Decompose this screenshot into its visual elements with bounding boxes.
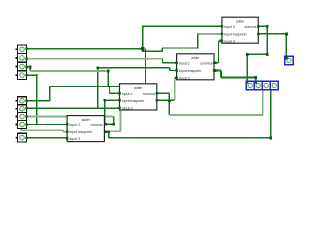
wire net N18 U4 trasporto carry to blue output cell4: [104, 90, 270, 138]
wire net N15 U1 somma to blue output cell1: [247, 26, 267, 81]
svg-text:input 3: input 3: [122, 105, 132, 110]
wire net N11 bus to U3 input2: [110, 87, 120, 94]
wire net N2 stack P2 to U2 input2: [26, 58, 162, 60]
svg-text:input 3: input 3: [70, 136, 80, 141]
svg-text:input trasporto: input trasporto: [122, 98, 144, 103]
svg-text:input 2: input 2: [122, 91, 132, 96]
wire net N16 U1 trasporto to single blue output: [258, 34, 286, 57]
svg-text:adder: adder: [191, 56, 200, 60]
svg-text:input trasporto: input trasporto: [70, 129, 92, 134]
wire net N14 U2 trasporto to blue output cell2: [214, 70, 256, 81]
svg-text:input 3: input 3: [224, 39, 234, 44]
wire vertical drop from junction J1: [145, 49, 147, 87]
wire net N12 U3 somma to blue output cell3: [157, 93, 170, 115]
wire net N7 stack2 cell3 to U4 somma output: [26, 115, 113, 117]
svg-text:input 2: input 2: [70, 122, 80, 127]
svg-text:somma: somma: [143, 91, 156, 96]
adder block U2: [175, 54, 215, 81]
svg-text:input 2: input 2: [179, 60, 189, 65]
wire net N6 stack2 cell2 to U3 input1: [26, 107, 119, 109]
wire branch down at x97.7: [97, 87, 99, 109]
wire branch up at x97.7 to U2 input trasporto: [98, 68, 177, 87]
wire net N4 stack P4 to stack2 cell4 and U4 input2: [26, 74, 67, 125]
wire hug along U3 left edge: [109, 87, 121, 132]
input cell S3 (single toggle): [16, 133, 28, 142]
wire net N10 U3 trasporto output to U2 input1: [157, 99, 175, 101]
input stack S2 (4 toggle cells): [16, 97, 27, 129]
wire horizontal bus y86.5: [50, 86, 146, 88]
svg-text:input 2: input 2: [224, 24, 234, 29]
svg-text:adder: adder: [82, 118, 91, 122]
wire net N1 main run from input stack P1: [21, 26, 286, 138]
wire branch to U1 input2: [142, 26, 222, 49]
input stack S1 (4 toggle cells): [16, 45, 27, 79]
blue output row (4 cells): [246, 81, 278, 90]
wire net N9 U4 somma edge riser to U3 input trasporto: [103, 100, 120, 125]
wire to input stack2 cell1: [26, 86, 50, 101]
svg-text:somma: somma: [244, 24, 257, 29]
svg-text:somma: somma: [91, 122, 104, 127]
svg-text:input trasporto: input trasporto: [224, 32, 246, 37]
wire net N13 U2 somma to U1 input1: [214, 41, 222, 63]
adder block U1: [221, 17, 260, 43]
adder block U4: [66, 116, 104, 142]
adder block U3: [118, 84, 158, 111]
single blue output cell: [285, 56, 293, 64]
svg-text:input trasporto: input trasporto: [179, 68, 201, 73]
wire net N5 stack2 cell4 stub to U4 input trasporto: [20, 127, 22, 130]
svg-text:adder: adder: [134, 86, 143, 90]
svg-text:somma: somma: [200, 60, 213, 65]
wire jog branch to U1 input trasporto: [142, 34, 222, 52]
svg-text:input 3: input 3: [179, 75, 189, 80]
wire net N3 stack P3: [26, 67, 30, 71]
wire net N8 stack3 to U4 input1: [26, 137, 67, 139]
